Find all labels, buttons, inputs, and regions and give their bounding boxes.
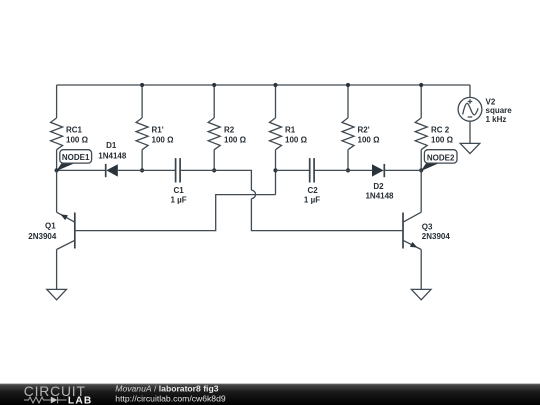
node NODE1 box — [60, 150, 92, 163]
svg-text:Q1: Q1 — [45, 221, 56, 230]
resistor R2 — [208, 118, 220, 150]
svg-text:100 Ω: 100 Ω — [285, 135, 308, 144]
svg-text:R1: R1 — [285, 125, 296, 134]
wire V2 top lead — [469, 85, 471, 97]
transistor Q3 arrow — [410, 242, 418, 248]
source V2 circle — [458, 97, 482, 121]
wire NODE1 to D1 — [57, 169, 106, 171]
wire C2 to D2 — [314, 169, 372, 171]
diode D1 cathode bar — [105, 164, 107, 177]
svg-text:RC1: RC1 — [66, 125, 83, 134]
svg-text:Q3: Q3 — [422, 222, 433, 231]
transistor Q1 bar — [74, 213, 76, 249]
wire R2 top lead — [213, 85, 215, 118]
wire hop over cross wire — [251, 190, 255, 198]
wire R1' bottom lead — [141, 150, 143, 171]
svg-text:NODE1: NODE1 — [62, 153, 90, 162]
svg-text:MovanuA / laborator8 fig3: MovanuA / laborator8 fig3 — [115, 384, 218, 394]
wire Q3 emitter lead — [420, 250, 422, 290]
wire R1 bottom lead — [275, 150, 277, 195]
resistor R2' — [342, 118, 354, 150]
transistor Q3 top lead — [420, 170, 422, 212]
svg-text:NODE2: NODE2 — [427, 153, 455, 162]
source V2 minus — [468, 116, 473, 118]
capacitor C2 plates — [310, 158, 314, 182]
svg-text:R1': R1' — [152, 125, 164, 134]
transistor Q1 top lead — [56, 170, 58, 212]
wire RC1 top lead — [56, 85, 58, 118]
diode D2 triangle — [372, 164, 384, 176]
junction NODE1 point — [55, 168, 59, 172]
svg-text:C2: C2 — [307, 186, 318, 195]
wire R1 top lead — [275, 85, 277, 118]
node NODE2 box — [424, 150, 457, 163]
svg-text:2N3904: 2N3904 — [422, 232, 451, 241]
transistor Q3 bar — [402, 213, 404, 249]
resistor RC1 — [51, 118, 63, 150]
transistor Q3 lower diagonal — [403, 240, 421, 249]
svg-text:1 µF: 1 µF — [171, 195, 187, 204]
junction R1 bottom — [273, 168, 277, 172]
junction RC2 rail — [419, 83, 423, 87]
svg-text:RC 2: RC 2 — [431, 125, 450, 134]
svg-text:1 kHz: 1 kHz — [486, 115, 507, 124]
resistor R1 — [270, 118, 282, 150]
wire R1 to C2 — [276, 169, 310, 171]
svg-text:1 µF: 1 µF — [304, 195, 320, 204]
junction R2' bottom — [346, 168, 350, 172]
ground V2 — [460, 143, 480, 153]
wire R1' top lead — [141, 85, 143, 118]
CircuitLab logo doodle wire — [24, 397, 51, 403]
svg-text:1N4148: 1N4148 — [98, 152, 127, 161]
source V2 waveform — [463, 103, 478, 114]
wire D1 to C1 — [118, 169, 176, 171]
wire V2 bottom lead — [469, 121, 471, 143]
node NODE1 tail — [56, 163, 74, 171]
svg-text:http://circuitlab.com/cw6k8d9: http://circuitlab.com/cw6k8d9 — [115, 393, 226, 403]
junction R2 bottom — [212, 168, 216, 172]
wire R2' top lead — [347, 85, 349, 118]
wire R2 bottom lead — [213, 150, 215, 171]
svg-text:1N4148: 1N4148 — [365, 191, 394, 200]
transistor Q1 lower diagonal — [57, 240, 75, 249]
wire RC2 bottom lead — [420, 150, 422, 171]
junction R2 rail — [212, 83, 216, 87]
footer bar — [0, 384, 540, 405]
svg-text:R2: R2 — [224, 125, 235, 134]
wire top supply rail — [57, 84, 470, 86]
wire R2' bottom lead — [347, 150, 349, 171]
diode D2 cathode bar — [383, 164, 385, 177]
wire RC2 top lead — [420, 85, 422, 118]
transistor Q1 arrow — [60, 214, 68, 220]
wire down then right to Q3 base — [251, 199, 403, 231]
junction R1' rail — [140, 83, 144, 87]
wire D2 to NODE2 — [384, 169, 421, 171]
wire C1 to corner and down to Q3 base net — [180, 170, 251, 190]
resistor R1' — [136, 118, 148, 150]
CircuitLab logo doodle diode — [51, 397, 58, 404]
svg-text:2N3904: 2N3904 — [28, 232, 57, 241]
transistor Q1 upper diagonal — [57, 212, 75, 222]
transistor Q3 upper diagonal — [403, 212, 421, 222]
svg-text:D1: D1 — [106, 141, 117, 150]
junction NODE2 point — [419, 168, 423, 172]
resistor RC2 — [415, 118, 427, 150]
svg-text:100 Ω: 100 Ω — [358, 135, 381, 144]
junction R1' bottom — [140, 168, 144, 172]
svg-text:LAB: LAB — [68, 395, 93, 405]
wire cross from R1 down-left to Q1 base — [75, 195, 276, 231]
svg-text:R2': R2' — [358, 125, 370, 134]
svg-text:100 Ω: 100 Ω — [66, 135, 89, 144]
node NODE2 tail — [421, 163, 439, 171]
source V2 plus — [468, 99, 473, 104]
ground Q1 — [47, 289, 67, 299]
diode D1 triangle — [106, 164, 118, 176]
wire Q1 bottom lead — [56, 250, 58, 290]
capacitor C1 plates — [176, 158, 181, 182]
junction R2' rail — [346, 83, 350, 87]
svg-text:100 Ω: 100 Ω — [224, 135, 247, 144]
svg-text:D2: D2 — [373, 182, 384, 191]
svg-text:100 Ω: 100 Ω — [152, 135, 175, 144]
wire RC1 bottom lead — [56, 150, 58, 171]
svg-text:100 Ω: 100 Ω — [431, 135, 454, 144]
ground Q3 — [411, 289, 431, 299]
junction R1 rail — [273, 83, 277, 87]
svg-text:C1: C1 — [173, 186, 184, 195]
svg-text:square: square — [486, 106, 513, 115]
